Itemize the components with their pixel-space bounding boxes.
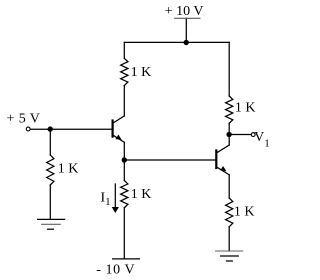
svg-text:1 K: 1 K xyxy=(234,205,255,220)
svg-text:1 K: 1 K xyxy=(58,161,79,176)
svg-text:- 10 V: - 10 V xyxy=(96,263,135,278)
svg-text:1 K: 1 K xyxy=(131,65,152,80)
svg-text:1 K: 1 K xyxy=(131,187,152,202)
svg-text:+ 10 V: + 10 V xyxy=(165,4,204,19)
svg-text:1 K: 1 K xyxy=(235,101,256,116)
svg-text:+ 5 V: + 5 V xyxy=(7,112,41,127)
